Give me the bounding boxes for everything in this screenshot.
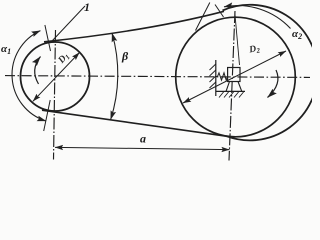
support wall hatching bbox=[210, 64, 216, 88]
svg-text:a: a bbox=[140, 132, 146, 146]
pulley D1 circle bbox=[21, 42, 90, 111]
right pulley vertical centerline bbox=[229, 11, 235, 161]
diameter D2 double arrow bbox=[183, 51, 286, 103]
belt top strand bbox=[44, 11, 224, 42]
strand angle beta arc bbox=[111, 33, 118, 120]
dimension a line bbox=[55, 147, 230, 149]
rotation arrow right pulley bbox=[268, 70, 278, 98]
svg-text:β: β bbox=[121, 49, 129, 63]
spring bbox=[216, 73, 228, 80]
tangent marker left top bbox=[45, 25, 51, 51]
horizontal centerline bbox=[5, 76, 310, 78]
svg-text:α1: α1 bbox=[1, 43, 11, 56]
support floor bbox=[216, 90, 245, 92]
support wall bbox=[215, 60, 217, 96]
pulley D2 outer circle bbox=[223, 5, 318, 141]
rotation arrow left pulley bbox=[35, 57, 41, 85]
left pulley vertical centerline bbox=[54, 30, 56, 160]
bearing block bbox=[228, 68, 240, 82]
belt bottom strand bbox=[42, 110, 228, 136]
support floor hatching bbox=[219, 91, 244, 97]
wrap angle alpha1 arc bbox=[12, 31, 46, 121]
tangent marker right top A bbox=[196, 3, 210, 31]
tangent marker left bottom bbox=[44, 100, 51, 131]
svg-text:D2: D2 bbox=[248, 44, 262, 57]
pedestal bbox=[226, 82, 242, 92]
tangent marker right top B bbox=[215, 5, 224, 18]
svg-text:α2: α2 bbox=[292, 28, 302, 41]
svg-text:1: 1 bbox=[84, 0, 90, 14]
diameter D1 double arrow bbox=[33, 53, 80, 102]
shaft line right pulley bbox=[235, 13, 240, 66]
wrap angle alpha2 arc bbox=[224, 6, 291, 29]
leader line for belt label 1 bbox=[53, 6, 86, 41]
svg-text:D1: D1 bbox=[56, 51, 72, 67]
pulley D2 inner circle bbox=[176, 17, 296, 137]
